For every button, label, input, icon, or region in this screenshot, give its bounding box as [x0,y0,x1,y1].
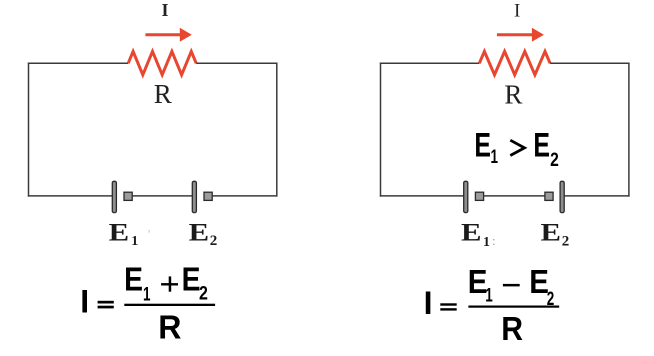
svg-text:1: 1 [491,147,499,168]
wire: top-left segment (left circuit) [28,62,128,64]
battery cell E1 short plate (right circuit) [475,192,483,200]
svg-text:2: 2 [550,150,559,171]
label E2 (right circuit) [541,220,570,250]
svg-text:R: R [154,79,172,109]
wire: right side (left circuit) [276,63,278,197]
battery cell E1 short plate (left circuit) [124,192,132,200]
formula left: plus sign [161,283,178,285]
svg-text:E: E [461,220,482,247]
svg-text:R: R [501,311,523,348]
wire: bottom-left segment (left circuit) [28,195,113,197]
wire: top-right segment (right circuit) [550,62,630,64]
formula right: minus sign [503,284,520,287]
wire: between E1 and E2 (left circuit) [132,195,192,197]
formula left: fraction bar [124,304,215,306]
wire: top-right segment (left circuit) [196,62,277,64]
formula right: fraction bar [468,306,559,308]
svg-text:1: 1 [483,235,490,250]
svg-text:1: 1 [143,284,151,305]
formula right: equals sign [440,303,456,305]
svg-text:1: 1 [131,234,138,249]
current arrow I (left circuit) [145,28,191,42]
wire: bottom-right segment (right circuit) [564,195,629,197]
svg-text:E: E [474,126,491,164]
battery cell E2 short plate (left circuit) [204,192,212,200]
wire: between E1 and E2 (right circuit) [484,195,545,197]
label E1 (left circuit) [109,220,139,250]
svg-text:R: R [504,79,522,109]
formula I = (E1 - E2) / R (right) [424,264,560,348]
battery cell E2 short plate (right circuit) [545,192,553,200]
svg-text:E: E [541,220,562,247]
annotation E1 > E2 (right circuit) [474,126,558,171]
battery cell E2 long plate (right circuit) [560,181,564,212]
wire: bottom-left segment (right circuit) [380,195,464,197]
formula I = (E1 + E2) / R (left) [80,261,215,346]
battery cell E1 long plate (left circuit) [112,181,116,212]
svg-text:I: I [424,285,433,321]
svg-text:R: R [158,310,181,347]
svg-text::: : [492,233,496,248]
svg-text:E: E [124,262,143,299]
svg-text:I: I [161,0,168,20]
wire: left side (left circuit) [28,63,30,197]
svg-text:E: E [533,126,550,164]
resistor R (left circuit) [128,51,196,74]
svg-text:2: 2 [562,234,570,250]
svg-text:I: I [514,0,520,21]
svg-text:2: 2 [199,283,208,304]
resistor R (right circuit) [479,51,550,74]
battery cell E2 long plate (left circuit) [192,181,196,212]
svg-text:1: 1 [485,286,493,307]
wire: right side (right circuit) [628,63,630,197]
svg-text:E: E [182,261,201,298]
svg-text:I: I [80,283,89,319]
label E2 (left circuit) [189,220,218,250]
wire: bottom-right segment (left circuit) [212,195,277,197]
wire: left side (right circuit) [380,63,382,197]
svg-text:ʼ: ʼ [147,227,151,241]
wire: top-left segment (right circuit) [380,62,480,64]
svg-text:E: E [109,220,130,247]
svg-text:2: 2 [210,233,218,249]
formula left: equals sign [98,301,114,304]
battery cell E1 long plate (right circuit) [464,181,468,212]
current arrow I (right circuit) [497,28,544,42]
label E1 (right circuit) [461,220,496,250]
svg-text:E: E [189,220,210,247]
